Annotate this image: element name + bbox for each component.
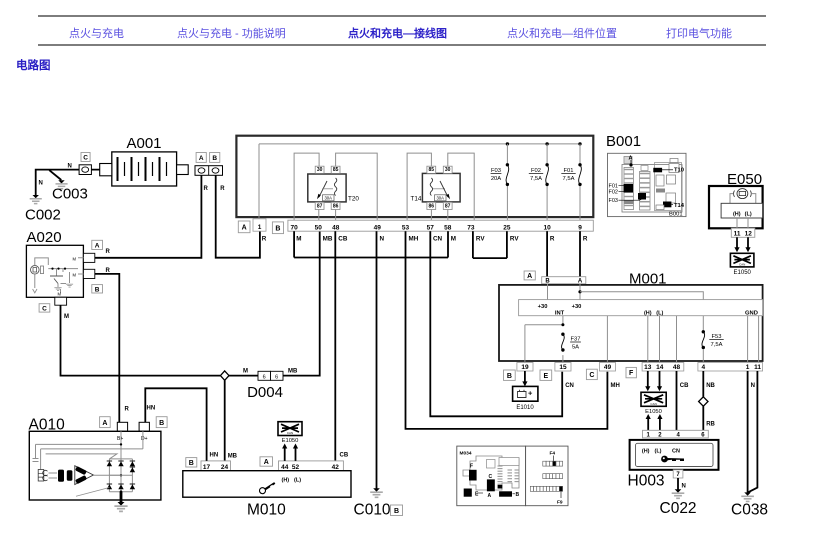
svg-text:B001: B001	[606, 133, 641, 150]
svg-text:C003: C003	[52, 186, 88, 203]
svg-text:70: 70	[290, 224, 298, 231]
svg-text:D004: D004	[247, 384, 283, 401]
svg-text:B: B	[275, 225, 280, 232]
alternator A010	[29, 407, 168, 501]
svg-text:7,5A: 7,5A	[563, 176, 575, 182]
wires from E050 pins to CAN node	[734, 237, 750, 252]
connector C003 (pin C of A001)	[79, 153, 91, 175]
wire CN from fusebox pin 57 to M001 pin 15	[430, 231, 574, 416]
svg-text:F03: F03	[609, 198, 618, 204]
svg-text:B: B	[95, 286, 100, 293]
svg-text:CN: CN	[433, 236, 443, 243]
top rule	[38, 15, 766, 17]
svg-text:B: B	[516, 492, 520, 498]
wire R from fusebox pin 10 to M001 pin B	[546, 231, 548, 277]
ground C010	[354, 488, 403, 518]
svg-text:48: 48	[673, 364, 681, 371]
svg-text:A: A	[199, 155, 204, 162]
svg-text:R: R	[220, 186, 225, 192]
battery supply node E1010	[513, 371, 538, 411]
svg-text:85: 85	[333, 167, 339, 173]
svg-text:C010: C010	[354, 502, 391, 519]
svg-text:T10: T10	[674, 168, 684, 174]
wire MH from fusebox pin 53 to M001 pin 49	[406, 231, 620, 429]
svg-text:R: R	[583, 236, 588, 243]
wire N from fusebox pin 49 to ground C010	[376, 231, 378, 488]
svg-text:A: A	[95, 243, 100, 250]
svg-text:F53: F53	[712, 334, 722, 340]
wire HN from A010-B to M010 pin 17	[145, 388, 206, 461]
wire M bus joining pins 70 and 58	[294, 231, 448, 257]
wire NB from M001 pin 4 to splice	[703, 371, 715, 397]
svg-text:CN: CN	[565, 383, 574, 389]
dashboard fusebox location inset M034	[457, 446, 568, 506]
wires M001 pins 13 14 to CAN node	[645, 371, 662, 391]
svg-text:E1050: E1050	[734, 270, 752, 276]
svg-text:GND: GND	[745, 311, 758, 317]
svg-text:F9: F9	[557, 500, 563, 506]
svg-text:RV: RV	[510, 236, 519, 243]
wire R from A001-A to A020-A	[95, 175, 202, 257]
svg-text:30: 30	[317, 167, 323, 173]
nav links	[0, 24, 837, 26]
svg-text:52: 52	[292, 464, 300, 471]
svg-text:87: 87	[317, 203, 323, 209]
svg-text:T14: T14	[674, 203, 685, 209]
svg-text:30: 30	[445, 167, 451, 173]
svg-text:C: C	[589, 372, 594, 379]
svg-text:R: R	[262, 236, 267, 243]
relay T14	[407, 153, 474, 220]
battery A001	[100, 135, 189, 186]
svg-text:30A: 30A	[324, 196, 332, 201]
svg-text:19: 19	[521, 364, 529, 371]
svg-text:A: A	[527, 273, 532, 280]
fuse F53 7.5A inside M001	[702, 330, 724, 349]
svg-text:(L): (L)	[745, 211, 752, 217]
svg-text:9: 9	[578, 224, 582, 231]
wire labels under fusebox	[262, 236, 588, 243]
svg-text:4: 4	[701, 364, 705, 371]
voltage regulator A020	[26, 229, 110, 320]
CAN network node E1050 (cluster)	[641, 392, 666, 415]
svg-text:F01: F01	[564, 168, 574, 174]
svg-text:B001: B001	[669, 212, 683, 218]
svg-text:N: N	[68, 163, 72, 169]
svg-text:CAN: CAN	[287, 431, 293, 435]
svg-text:13: 13	[644, 364, 652, 371]
wire CB from M001 pin 48 to H003 pin 4	[677, 371, 690, 430]
svg-text:12: 12	[745, 231, 753, 238]
svg-text:MB: MB	[228, 454, 238, 460]
svg-text:CAN: CAN	[650, 402, 656, 406]
svg-text:+30: +30	[572, 304, 582, 310]
svg-text:10: 10	[543, 224, 551, 231]
svg-text:E: E	[544, 373, 549, 380]
svg-text:R: R	[204, 186, 209, 192]
CAN network node E1050 (E050)	[730, 253, 754, 275]
wire N from H003 pin 7 to ground C022	[678, 478, 686, 490]
ground C038	[731, 492, 768, 518]
svg-text:M034: M034	[460, 451, 472, 457]
svg-text:B: B	[394, 508, 399, 515]
splice node on NB/RB wire	[699, 397, 708, 406]
svg-text:N: N	[751, 383, 755, 389]
svg-text:1: 1	[746, 364, 750, 371]
svg-text:(H): (H)	[642, 448, 650, 454]
svg-text:F03: F03	[491, 168, 501, 174]
svg-text:7,5A: 7,5A	[711, 342, 723, 348]
svg-text:73: 73	[467, 224, 475, 231]
svg-text:MB: MB	[288, 369, 298, 375]
svg-text:C038: C038	[731, 502, 768, 519]
ground C022	[660, 489, 697, 517]
wire M from A020-C to splice	[61, 305, 221, 375]
svg-text:+: +	[528, 389, 533, 398]
svg-text:HN: HN	[147, 406, 156, 412]
svg-text:M: M	[296, 236, 301, 243]
svg-text:17: 17	[203, 464, 211, 471]
svg-text:24: 24	[221, 464, 229, 471]
bottom rule of nav	[38, 44, 766, 46]
svg-text:58: 58	[444, 224, 452, 231]
svg-text:A: A	[264, 459, 269, 466]
svg-text:RV: RV	[476, 236, 485, 243]
wires H003 pins 1 2 up to CAN node	[646, 414, 663, 430]
fuse F01 7.5A	[561, 142, 581, 220]
svg-text:N: N	[380, 236, 385, 243]
svg-text:T20: T20	[348, 196, 359, 203]
svg-text:H003: H003	[628, 473, 665, 490]
wire CB from fusebox pin 48 to M010 pin 42	[335, 231, 349, 461]
svg-text:A: A	[488, 493, 492, 499]
wire N from A001-C to grounds	[36, 163, 100, 195]
svg-text:25: 25	[503, 224, 511, 231]
svg-text:CAN: CAN	[739, 263, 745, 267]
svg-text:1: 1	[258, 224, 262, 231]
relay T20	[294, 153, 377, 220]
fusebox B001 schematic outline	[236, 136, 593, 217]
svg-text:NB: NB	[706, 383, 715, 389]
svg-text:14: 14	[656, 364, 664, 371]
svg-text:M: M	[73, 273, 77, 278]
svg-text:MH: MH	[409, 236, 419, 243]
svg-text:E1010: E1010	[516, 405, 534, 411]
svg-text:(H): (H)	[733, 211, 741, 217]
svg-text:MH: MH	[611, 383, 620, 389]
inline connector D004	[229, 369, 298, 402]
svg-text:M: M	[243, 369, 248, 375]
svg-text:B: B	[159, 420, 164, 427]
svg-text:(L): (L)	[654, 448, 661, 454]
control unit M001	[499, 271, 763, 363]
svg-text:42: 42	[332, 464, 340, 471]
svg-text:C: C	[489, 474, 493, 480]
svg-text:RB: RB	[706, 422, 715, 428]
ground C002	[25, 195, 61, 224]
svg-text:49: 49	[374, 224, 382, 231]
svg-text:C: C	[42, 306, 47, 313]
svg-text:6: 6	[263, 375, 266, 381]
svg-text:30A: 30A	[436, 196, 444, 201]
svg-text:M: M	[58, 292, 62, 297]
splice node diamond near D004	[220, 371, 229, 380]
svg-text:C022: C022	[660, 500, 697, 517]
svg-text:(H): (H)	[282, 477, 290, 483]
svg-text:57: 57	[427, 224, 435, 231]
connector pins 11 12 of E050	[731, 228, 755, 237]
svg-text:B: B	[507, 373, 512, 380]
fuse F03 20A	[491, 142, 509, 220]
svg-text:N: N	[39, 181, 43, 187]
svg-text:A: A	[242, 224, 247, 231]
svg-text:86: 86	[429, 203, 435, 209]
svg-text:F02: F02	[609, 189, 618, 195]
wire N from M001 pin 1 to ground C038	[748, 371, 755, 493]
svg-text:11: 11	[734, 231, 741, 238]
svg-text:44: 44	[281, 464, 289, 471]
svg-text:M: M	[73, 256, 77, 261]
svg-text:+30: +30	[538, 304, 548, 310]
wire from M001 pin 11 to ground C038	[748, 371, 758, 493]
svg-text:A020: A020	[27, 229, 62, 246]
svg-text:48: 48	[332, 224, 340, 231]
svg-text:A: A	[102, 420, 107, 427]
svg-text:R: R	[550, 236, 555, 243]
svg-text:CN: CN	[672, 448, 680, 454]
svg-text:B+: B+	[117, 436, 123, 442]
wire MB from D004 up to fusebox pin 50	[283, 231, 320, 375]
wire RB from splice to H003 pin 6	[703, 406, 715, 430]
svg-text:M010: M010	[247, 502, 286, 519]
page link 电路图	[16, 57, 51, 73]
svg-text:D+: D+	[141, 436, 148, 442]
svg-text:49: 49	[604, 364, 612, 371]
svg-text:E1050: E1050	[282, 438, 299, 444]
svg-text:50: 50	[315, 224, 323, 231]
+30 bus inside fusebox	[259, 144, 580, 220]
fuse F37 5A inside M001	[561, 333, 581, 352]
fusebox B001 location inset	[606, 133, 686, 218]
svg-text:C: C	[83, 155, 88, 162]
svg-text:20A: 20A	[491, 176, 501, 182]
svg-text:CB: CB	[340, 453, 349, 459]
svg-text:87: 87	[445, 203, 451, 209]
siren E050	[709, 171, 763, 228]
svg-text:53: 53	[402, 224, 410, 231]
svg-text:CB: CB	[338, 236, 348, 243]
svg-text:A001: A001	[126, 135, 161, 152]
svg-text:7,5A: 7,5A	[530, 176, 542, 182]
svg-text:F: F	[470, 464, 473, 470]
svg-text:C002: C002	[25, 207, 61, 224]
svg-text:11: 11	[754, 364, 761, 371]
svg-text:(L): (L)	[294, 477, 301, 483]
svg-text:T14: T14	[411, 196, 422, 203]
svg-text:A: A	[629, 156, 633, 162]
svg-text:6: 6	[275, 375, 278, 381]
svg-text:M: M	[64, 314, 69, 320]
CAN network node E1050 (M010)	[278, 422, 302, 444]
immobilizer aerial H003	[628, 430, 719, 489]
svg-text:R: R	[106, 249, 111, 255]
connector pins B A on top of M001	[524, 271, 586, 285]
ground C003	[52, 180, 88, 202]
svg-text:E1050: E1050	[645, 409, 662, 415]
svg-text:86: 86	[333, 203, 339, 209]
svg-text:F: F	[629, 370, 634, 377]
svg-text:N: N	[682, 484, 686, 490]
wire RV joining fusebox pins 73 and 25	[473, 231, 507, 258]
connector pins A and B of A001	[195, 153, 225, 193]
svg-text:CB: CB	[680, 383, 689, 389]
svg-text:B: B	[212, 155, 217, 162]
svg-text:F02: F02	[531, 168, 541, 174]
ground of A010	[114, 492, 127, 512]
wire MB from splice down to M010 pin 24	[225, 380, 238, 461]
svg-text:R: R	[125, 407, 130, 413]
instrument cluster M010	[183, 453, 351, 519]
svg-text:M: M	[451, 236, 456, 243]
svg-text:B: B	[189, 460, 194, 467]
svg-text:15: 15	[559, 364, 567, 371]
M001 bottom pin boxes	[504, 363, 763, 381]
wire R from A020-B down to A010-A	[95, 274, 120, 422]
wires M010 pins 44 52 to CAN node	[282, 444, 298, 461]
wire R from A001-B to fusebox pin 1	[216, 175, 260, 257]
svg-text:HN: HN	[210, 453, 219, 459]
fuse F02 7.5A	[529, 142, 549, 220]
svg-text:85: 85	[429, 167, 435, 173]
svg-text:F37: F37	[571, 337, 581, 343]
svg-text:MB: MB	[323, 236, 333, 243]
fusebox pin strip	[238, 219, 593, 234]
wire R from fusebox pin 9 to M001 pin A	[579, 231, 581, 277]
svg-text:F4: F4	[550, 451, 556, 457]
svg-text:5A: 5A	[572, 344, 579, 350]
